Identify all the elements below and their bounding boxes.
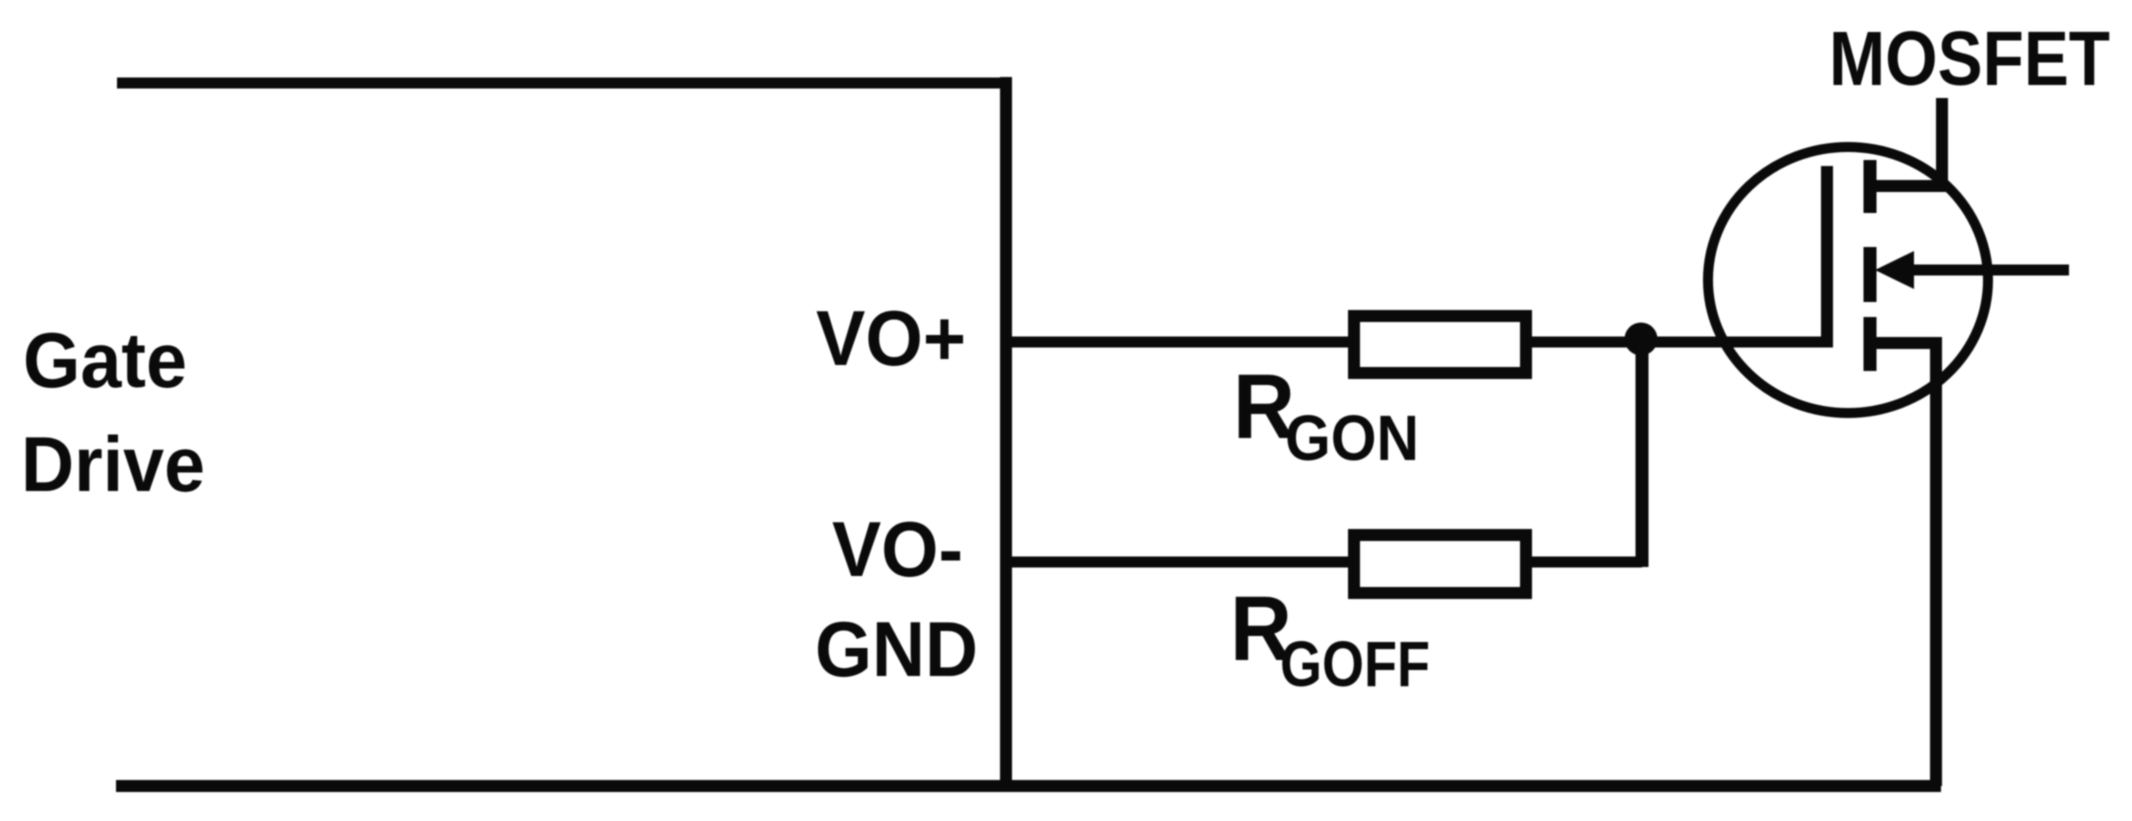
svg-text:GND: GND bbox=[815, 605, 978, 693]
wire VO+ output to MOSFET gate bbox=[1006, 337, 1833, 348]
transistor MOSFET body line bbox=[1905, 265, 2069, 276]
transistor MOSFET channel segment bottom bbox=[1864, 317, 1877, 371]
transistor MOSFET channel segment middle bbox=[1864, 247, 1877, 302]
transistor MOSFET channel segment top bbox=[1864, 160, 1877, 213]
resistor RGOFF bbox=[1354, 535, 1526, 593]
transistor MOSFET source connection and lead bbox=[1870, 343, 1936, 786]
node junction dot bbox=[1625, 323, 1658, 356]
resistor RGON bbox=[1354, 316, 1526, 373]
wire bottom rail bbox=[116, 780, 1941, 792]
wire RGOFF up to gate node bbox=[1636, 339, 1649, 567]
wire right edge of gate-drive box bbox=[1000, 77, 1012, 792]
svg-text:MOSFET: MOSFET bbox=[1829, 16, 2110, 102]
svg-text:GON: GON bbox=[1285, 402, 1419, 474]
wire VO- output to RGOFF bbox=[1006, 557, 1642, 568]
svg-text:GOFF: GOFF bbox=[1280, 628, 1430, 700]
transistor MOSFET drain connection and lead bbox=[1870, 98, 1942, 186]
svg-text:Gate: Gate bbox=[23, 316, 187, 404]
transistor MOSFET body arrowhead bbox=[1875, 251, 1914, 289]
transistor MOSFET body circle bbox=[1708, 147, 1988, 413]
svg-text:VO+: VO+ bbox=[816, 294, 966, 382]
svg-text:Drive: Drive bbox=[21, 420, 205, 508]
svg-text:VO-: VO- bbox=[832, 505, 963, 593]
transistor MOSFET gate bar bbox=[1821, 166, 1833, 347]
wire top rail of gate-drive box bbox=[117, 78, 1012, 89]
